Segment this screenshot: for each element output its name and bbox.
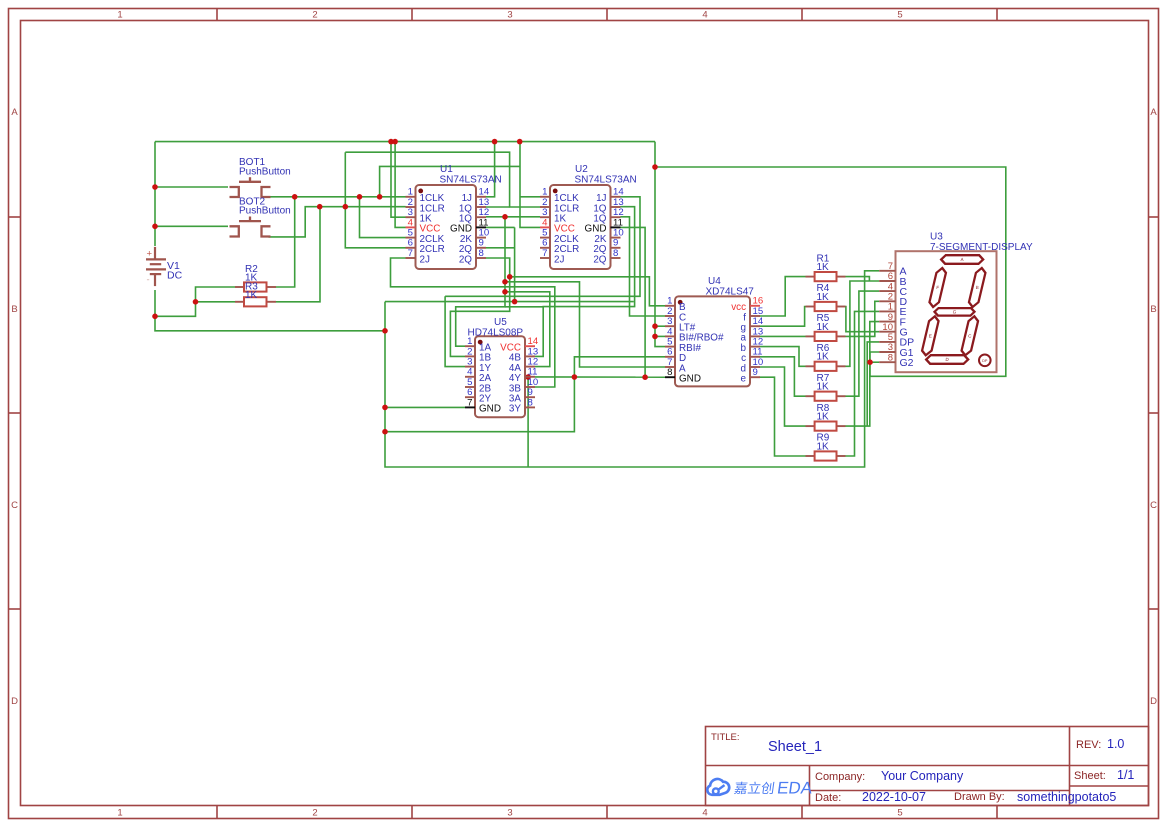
wire VCC branch to U3 G2 (870, 361, 879, 363)
U4 body (675, 296, 750, 386)
svg-text:8: 8 (479, 248, 484, 259)
U5 pin 14 (VCC) (525, 345, 535, 347)
svg-text:2Q: 2Q (459, 254, 472, 265)
svg-text:2: 2 (312, 10, 317, 21)
svg-text:5: 5 (897, 10, 902, 21)
svg-text:8: 8 (888, 352, 893, 363)
U2 pin 5 (2CLK) (540, 237, 550, 239)
U4 pin 8 (GND) (665, 376, 675, 378)
wire net to U5 pin12 4A (505, 292, 550, 367)
junction VCC/BI# (652, 334, 658, 340)
svg-text:GND: GND (479, 404, 501, 415)
svg-text:D: D (1150, 696, 1157, 707)
U4 pin 3 (LT#) (665, 325, 675, 327)
wire U1 pin7 2J to U5 pin10 3B (391, 258, 555, 387)
U4 pin 16 (vcc) (750, 305, 760, 307)
junction battery/R3 (152, 314, 158, 320)
U4 pin 1 (B) (665, 305, 675, 307)
junction GND net (512, 299, 518, 305)
svg-text:somethingpotato5: somethingpotato5 (1017, 790, 1116, 804)
7-segment display U3 body (896, 251, 997, 372)
U2 pin 13 (1Q) (611, 206, 621, 208)
svg-text:SN74LS73AN: SN74LS73AN (440, 175, 502, 186)
resistor R7 (R7) (806, 392, 846, 401)
wire net across to U2 pin13 riser (515, 301, 634, 303)
junction net B (507, 274, 513, 280)
svg-text:1K: 1K (817, 352, 830, 363)
svg-text:B: B (11, 304, 17, 315)
U2 pin 14 (1J) (611, 196, 621, 198)
svg-text:1K: 1K (245, 290, 258, 301)
wire R1 jog to B row (846, 277, 870, 281)
svg-text:A: A (960, 257, 963, 262)
U1 pin 3 (1K) (406, 216, 416, 218)
wire VCC to U1 pin4 VCC (395, 142, 405, 228)
junction clock up (377, 194, 383, 200)
wire to U2 pin1 1CLK (520, 196, 540, 198)
segment A (941, 255, 984, 264)
wire net to U4 pin1 B (510, 277, 668, 306)
svg-text:4: 4 (702, 10, 707, 21)
U1 pin 10 (2K) (476, 237, 486, 239)
U4 pin 2 (C) (665, 315, 675, 317)
svg-text:Date:: Date: (815, 792, 841, 804)
resistor R9 (R9) (806, 451, 846, 460)
segment C (961, 316, 978, 355)
resistor R3 (235, 286, 244, 288)
wire battery to BOT1 (155, 186, 228, 188)
svg-text:2022-10-07: 2022-10-07 (862, 790, 926, 804)
U1 pin 11 (GND) (476, 226, 486, 228)
U3 pin 7 (A) (879, 270, 895, 272)
U4 pin 4 (BI#/RBO#) (665, 335, 675, 337)
segment F (929, 268, 946, 307)
U3 pin 8 (G2) (879, 361, 895, 363)
svg-text:1/1: 1/1 (1117, 768, 1134, 782)
U4 pin 9 (e) (750, 376, 760, 378)
U2 body (550, 185, 611, 269)
U4 pin 5 (RBI#) (665, 346, 675, 348)
svg-text:E: E (929, 333, 932, 338)
resistor R6 (R6) (806, 362, 846, 371)
junction VCC/LT# (652, 323, 658, 329)
U2 pin 9 (2Q) (611, 247, 621, 249)
svg-text:REV:: REV: (1076, 739, 1101, 751)
U5 pin 1 (1A) (465, 345, 475, 347)
U4 pin 11 (c) (750, 356, 760, 358)
wire VCC down to U4 pin5 RBI# (655, 142, 665, 347)
U5 pin 11 (4Y) (525, 376, 535, 378)
U4 pin 13 (a) (750, 335, 760, 337)
svg-text:7-SEGMENT-DISPLAY: 7-SEGMENT-DISPLAY (930, 242, 1033, 253)
wire R3 right to clock net (276, 197, 295, 287)
wire node to R2 left (196, 301, 236, 303)
junction bus/D net (382, 429, 388, 435)
svg-text:e: e (741, 374, 747, 385)
svg-text:嘉立创: 嘉立创 (733, 781, 776, 796)
junction battery/BOT2 (152, 224, 158, 230)
junction VCC/U1 1K (388, 139, 394, 145)
wire VCC to U4 pin4 BI#/RBO# (655, 335, 665, 337)
U5 pin 8 (3Y) (525, 406, 535, 408)
U5 body (475, 336, 525, 417)
junction 4Y/D net (572, 374, 578, 380)
junction VCC/U2 (517, 139, 523, 145)
junction R2 left (193, 299, 199, 305)
svg-text:DP: DP (982, 359, 988, 363)
svg-text:1: 1 (117, 10, 122, 21)
svg-text:3: 3 (507, 808, 512, 819)
svg-text:SN74LS73AN: SN74LS73AN (575, 175, 637, 186)
U1 pin 5 (2CLK) (406, 237, 416, 239)
wire VCC to U2 pin4 VCC (520, 142, 540, 228)
U4 pin 6 (D) (665, 356, 675, 358)
junction VCC/G2 (867, 359, 873, 365)
JLC EDA logo (707, 779, 729, 795)
wire 1Q net down to U5 pin1 1A (456, 217, 505, 346)
U5 pin 6 (2Y) (465, 396, 475, 398)
wire R8 to U3 F (846, 322, 880, 427)
svg-text:C: C (1150, 500, 1157, 511)
U3 pin 2 (D) (879, 300, 895, 302)
wire U4 pin12 b to R6 (759, 347, 805, 367)
U3 pin 3 (G1) (879, 351, 895, 353)
junction VCC right branch (652, 164, 658, 170)
U2 pin 12 (1Q) (611, 216, 621, 218)
svg-text:1: 1 (117, 808, 122, 819)
svg-text:TITLE:: TITLE: (711, 732, 740, 743)
wire U1 pin13 1Q to net (486, 206, 510, 208)
wire clr net over to U2 pin2 1CLR (345, 152, 540, 207)
svg-text:DC: DC (167, 270, 183, 282)
svg-text:8: 8 (613, 248, 618, 259)
junction bus/battery rail (382, 328, 388, 334)
svg-text:2J: 2J (554, 254, 564, 265)
junction net 4A (502, 289, 508, 295)
U3 pin 9 (F) (879, 321, 895, 323)
svg-text:HD74LS08P: HD74LS08P (468, 328, 524, 339)
U3 pin 1 (E) (879, 310, 895, 312)
resistor R8 (R8) (806, 422, 846, 431)
title block (706, 727, 1149, 806)
wire U5 net to U2 pin14 1J (445, 197, 640, 296)
wire battery + to VCC rail (154, 142, 156, 246)
U5 pin 12 (4A) (525, 366, 535, 368)
U4 pin 10 (d) (750, 366, 760, 368)
wire U1 pin8 2Q to U5 pin2 1B (450, 258, 509, 356)
U3 pin 10 (G) (879, 331, 895, 333)
U5 pin 9 (3A) (525, 396, 535, 398)
pushbutton BOT1 (230, 177, 271, 197)
svg-text:Sheet_1: Sheet_1 (768, 739, 822, 755)
resistor R4 (R4) (806, 302, 846, 311)
wire VCC top rail (155, 141, 655, 143)
junction U1 1Q down (502, 214, 508, 220)
junction R2/clr (317, 204, 323, 210)
wire to U5 pin7 GND (385, 406, 465, 408)
svg-text:1K: 1K (817, 322, 830, 333)
junction U2 GND row (642, 374, 648, 380)
wire R5 to U3 D (846, 301, 880, 336)
U3 pin 6 (B) (879, 280, 895, 282)
U1 pin 4 (VCC) (406, 226, 416, 228)
svg-text:1K: 1K (817, 382, 830, 393)
wire battery - rail to node (155, 290, 385, 331)
junction net A (502, 279, 508, 285)
U2 pin 7 (2J) (540, 257, 550, 259)
U5 pin 13 (4B) (525, 355, 535, 357)
svg-text:1K: 1K (817, 262, 830, 273)
svg-text:D: D (11, 696, 18, 707)
svg-text:1K: 1K (817, 412, 830, 423)
segment D (926, 355, 969, 364)
U5 pin 5 (2B) (465, 386, 475, 388)
svg-text:4: 4 (702, 808, 707, 819)
junction R3/clock (292, 194, 298, 200)
U2 pin 6 (2CLR) (540, 247, 550, 249)
wire R4 to U3 G (846, 307, 880, 332)
svg-text:G2: G2 (900, 357, 914, 369)
wire R9 to U3 E (846, 311, 880, 456)
U2 pin 2 (1CLR) (540, 206, 550, 208)
svg-text:2J: 2J (420, 254, 430, 265)
junction VCC/U1 VCC (392, 139, 398, 145)
svg-text:A: A (11, 107, 18, 118)
svg-text:B: B (1150, 304, 1156, 315)
U1 pin 6 (2CLR) (406, 247, 416, 249)
junction clr/2CLR (343, 204, 349, 210)
wire net bridge segment (505, 306, 543, 308)
svg-text:Your Company: Your Company (881, 769, 964, 783)
junction clock/2CLK (357, 194, 363, 200)
wire U1 pin9 2Q (486, 247, 515, 249)
svg-text:5: 5 (897, 808, 902, 819)
U2 pin 11 (GND) (611, 226, 621, 228)
wire U4 pin15 f to R1 (759, 277, 805, 316)
wire R7 to U3 C (846, 291, 880, 396)
wire VCC to U1 pin14 1J (486, 142, 495, 197)
U1 pin 1 (1CLK) (406, 196, 416, 198)
svg-text:8: 8 (667, 367, 672, 378)
U2 pin 3 (1K) (540, 216, 550, 218)
wire battery to BOT2 (155, 225, 228, 227)
segment E (922, 316, 939, 355)
U5 pin 3 (1Y) (465, 366, 475, 368)
segment B (969, 268, 986, 307)
svg-text:XD74LS47: XD74LS47 (706, 287, 755, 298)
svg-text:1.0: 1.0 (1107, 737, 1124, 751)
svg-text:EDA: EDA (776, 779, 814, 798)
resistor R5 (R5) (806, 332, 846, 341)
U2 pin 8 (2Q) (611, 257, 621, 259)
svg-text:PushButton: PushButton (239, 206, 291, 217)
svg-text:B: B (976, 285, 979, 290)
svg-text:3: 3 (507, 10, 512, 21)
wire VCC loop to U3 G1 (655, 167, 1006, 376)
svg-text:7: 7 (408, 248, 413, 259)
wire net to U4 pin7 A (505, 282, 665, 367)
segment DP (979, 355, 991, 367)
wire U4 pin13 a to R5 (759, 335, 805, 337)
U1 pin 9 (2Q) (476, 247, 486, 249)
resistor R2 (235, 301, 244, 303)
wire U5 pin13 4B to U2 pin13 1Q (535, 207, 635, 357)
wire riser to U3 DP (867, 342, 879, 426)
resistor R1 (R1) (806, 272, 846, 281)
svg-text:2: 2 (312, 808, 317, 819)
wire R2 right to clr net (276, 207, 320, 302)
U2 pin 4 (VCC) (540, 226, 550, 228)
svg-text:-: - (147, 275, 150, 286)
wire net to U5 pin3 1Y (445, 296, 465, 366)
U3 pin 5 (DP) (879, 341, 895, 343)
wire U4 pin10 d to R8 (759, 367, 805, 426)
battery V1 DC (146, 247, 166, 286)
wire U2 pin11 GND down to GND row (621, 227, 646, 377)
wire clr net to U1 pin6 2CLR (345, 152, 405, 248)
svg-text:C: C (11, 500, 18, 511)
U4 pin 12 (b) (750, 346, 760, 348)
U4 pin 14 (g) (750, 325, 760, 327)
wire U2 pin12 1Q to U4 pin2 C (621, 217, 669, 316)
wire VCC to U4 pin3 LT# (655, 325, 665, 327)
svg-text:8: 8 (528, 397, 533, 408)
U1 pin 14 (1J) (476, 196, 486, 198)
junction bus/U5 GND (382, 405, 388, 411)
svg-text:1K: 1K (817, 292, 830, 303)
U5 pin 10 (3B) (525, 386, 535, 388)
svg-text:Company:: Company: (815, 771, 865, 783)
svg-text:+: + (147, 249, 153, 260)
svg-text:2Q: 2Q (593, 254, 606, 265)
wire net to U4 pin6 D (385, 357, 665, 432)
svg-text:Drawn By:: Drawn By: (954, 791, 1005, 803)
wire GND net down (385, 227, 515, 301)
wire branch down to bottom net (527, 377, 529, 467)
U4 pin 7 (A) (665, 366, 675, 368)
U1 pin 13 (1Q) (476, 206, 486, 208)
svg-text:7: 7 (542, 248, 547, 259)
wire U1 pin12 1Q to U2 pin3 1K (486, 216, 540, 218)
junction battery/BOT1 (152, 184, 158, 190)
wire BOT2 out to U1 pin2 1CLR (269, 207, 406, 237)
wire U5 pin11 4Y to U4 pin8 GND (535, 376, 665, 378)
svg-text:3Y: 3Y (509, 404, 521, 415)
wire U1 pin11 GND (486, 226, 515, 228)
pushbutton BOT2 (230, 217, 271, 237)
U1 pin 12 (1Q) (476, 216, 486, 218)
wire U4 pin9 e to R9 (759, 377, 805, 456)
U1 body (416, 185, 477, 269)
svg-text:9: 9 (753, 367, 758, 378)
segment G (934, 308, 975, 316)
U2 pin 1 (1CLK) (540, 196, 550, 198)
wire clock node up segment (380, 166, 520, 196)
U3 pin 4 (C) (879, 290, 895, 292)
svg-text:Sheet:: Sheet: (1074, 770, 1106, 782)
svg-text:PushButton: PushButton (239, 166, 291, 177)
junction 4Y row/down (525, 374, 531, 380)
wire R6 to U3 B (846, 281, 880, 366)
wire U4 pin14 g to R4 (759, 307, 805, 327)
wire VCC to U1 pin3 1K (391, 142, 406, 218)
wire U4 pin11 c to R7 (759, 357, 805, 396)
svg-text:A: A (1150, 107, 1157, 118)
svg-text:7: 7 (467, 397, 472, 408)
U2 pin 10 (2K) (611, 237, 621, 239)
U5 pin 7 (GND) (465, 406, 475, 408)
U5 pin 4 (2A) (465, 376, 475, 378)
U1 pin 7 (2J) (406, 257, 416, 259)
svg-text:GND: GND (679, 374, 701, 385)
U4 pin 15 (f) (750, 315, 760, 317)
wire long bottom net to U3 A (385, 271, 879, 467)
wire battery to R3 left (155, 287, 235, 316)
wire BOT1 out to U1 pin1 1CLK (269, 196, 406, 198)
U1 pin 2 (1CLR) (406, 206, 416, 208)
U5 pin 2 (1B) (465, 355, 475, 357)
junction VCC/U1 1J (492, 139, 498, 145)
svg-text:1K: 1K (817, 441, 830, 452)
U1 pin 8 (2Q) (476, 257, 486, 259)
wire clock to U1 pin5 2CLK (360, 197, 406, 238)
